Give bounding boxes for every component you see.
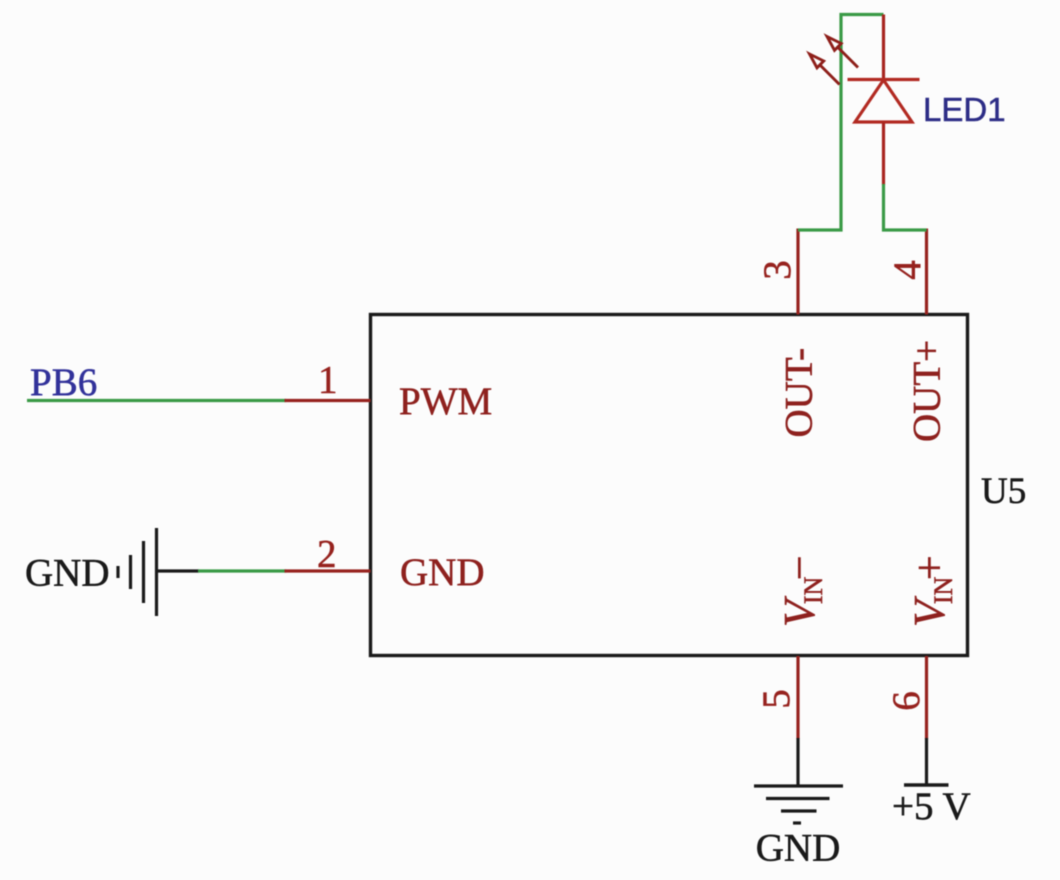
wire: net PB6 (green) <box>27 399 286 402</box>
svg-text:OUT-: OUT- <box>778 348 821 438</box>
svg-text:U5: U5 <box>981 471 1026 512</box>
svg-text:+5 V: +5 V <box>892 785 971 828</box>
wire: pin2 net (green) <box>198 569 286 572</box>
LED D1 triangle <box>855 80 912 122</box>
pin 6 stub (red) <box>925 656 928 739</box>
ground symbol (bottom) <box>754 786 843 823</box>
wire: LED lead bottom (red) <box>882 122 885 185</box>
svg-text:5: 5 <box>755 689 798 709</box>
svg-text:OUT+: OUT+ <box>906 340 949 442</box>
svg-text:2: 2 <box>317 533 337 576</box>
svg-text:LED1: LED1 <box>923 91 1006 128</box>
wire: pin6 to +5V (black) <box>925 738 928 785</box>
pin 1 stub (red) <box>285 399 371 402</box>
svg-text:4: 4 <box>886 260 929 280</box>
LED D1 cathode bar <box>848 78 920 81</box>
svg-text:6: 6 <box>885 691 928 711</box>
svg-text:PWM: PWM <box>399 380 492 423</box>
wire: ground stub black <box>157 569 200 572</box>
pin 2 stub (red) <box>285 569 371 572</box>
ground symbol (left, sideways) <box>118 528 157 616</box>
svg-text:GND: GND <box>25 552 110 595</box>
svg-text:3: 3 <box>756 260 799 280</box>
svg-text:VIN+: VIN+ <box>905 555 958 627</box>
svg-text:GND: GND <box>400 551 485 594</box>
pin 5 stub (red) <box>796 656 799 739</box>
LED emission arrow 2 <box>810 54 840 85</box>
svg-text:PB6: PB6 <box>30 361 97 404</box>
IC U5 body <box>371 315 968 656</box>
wire: green step left (pin3 to LED loop) <box>798 15 884 231</box>
LED emission arrow 1 <box>827 37 858 68</box>
svg-text:1: 1 <box>318 359 338 402</box>
svg-text:VIN−: VIN− <box>775 555 828 627</box>
svg-text:GND: GND <box>756 827 841 870</box>
pin 4 stub (red) <box>925 229 928 315</box>
wire: LED anode lead top (red) <box>882 15 885 80</box>
wire: pin5 to ground (black) <box>796 738 799 786</box>
wire: green segment below LED <box>884 184 927 230</box>
power symbol +5V bar <box>904 783 949 786</box>
pin 3 stub (red) <box>796 229 799 315</box>
